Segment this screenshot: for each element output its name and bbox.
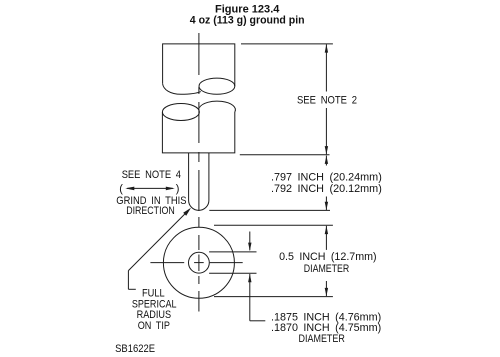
svg-text:.792 INCH (20.12mm): .792 INCH (20.12mm) <box>271 183 382 195</box>
svg-text:4 oz (113 g) ground pin: 4 oz (113 g) ground pin <box>190 14 305 26</box>
svg-text:.797 INCH (20.24mm): .797 INCH (20.24mm) <box>271 171 382 183</box>
tangent line t2 (small circle bottom) <box>209 272 256 274</box>
tangent line t1 (small circle top) <box>209 251 256 253</box>
dimension 0.5 inch <box>325 226 328 296</box>
extension line e2 (cylinder bottom) <box>240 154 330 156</box>
vertical centerline <box>198 33 200 312</box>
lower cylinder (bottom piece) <box>162 101 235 153</box>
small circle (pin diameter, end view) <box>189 252 210 273</box>
svg-text:SB1622E: SB1622E <box>115 343 155 355</box>
horizontal centerline <box>150 262 242 264</box>
extension line e5 (circle bottom) <box>214 296 333 298</box>
svg-text:ON TIP: ON TIP <box>138 320 170 332</box>
SEE NOTE 4 label <box>122 169 181 181</box>
svg-text:SEE NOTE 4: SEE NOTE 4 <box>122 169 181 181</box>
svg-text:): ) <box>176 183 180 195</box>
dimension .797/.792 <box>325 156 328 210</box>
title <box>190 3 305 26</box>
dimension SEE NOTE 2 <box>325 44 328 154</box>
SB1622E <box>115 343 155 355</box>
extension line e4 (circle top) <box>214 224 333 226</box>
upper cylinder (top piece) <box>163 44 235 94</box>
grind direction double arrow <box>119 183 179 195</box>
pin rod with spherical tip <box>189 153 209 210</box>
extension line e3 (pin tip) <box>209 209 330 211</box>
svg-text:(: ( <box>119 183 123 195</box>
extension line e1 (cylinder top) <box>241 43 333 45</box>
large circle (0.5 inch diameter, end view) <box>163 227 234 298</box>
svg-text:DIAMETER: DIAMETER <box>299 333 345 345</box>
svg-text:DIRECTION: DIRECTION <box>126 205 175 217</box>
svg-text:SEE NOTE 2: SEE NOTE 2 <box>297 95 357 107</box>
svg-text:DIAMETER: DIAMETER <box>304 263 350 275</box>
leader to pin tip (grind) + FULL SPERICAL RADIUS leader <box>128 208 191 289</box>
svg-text:0.5 INCH (12.7mm): 0.5 INCH (12.7mm) <box>279 251 377 263</box>
dimension .1875/.1870 <box>248 232 265 321</box>
